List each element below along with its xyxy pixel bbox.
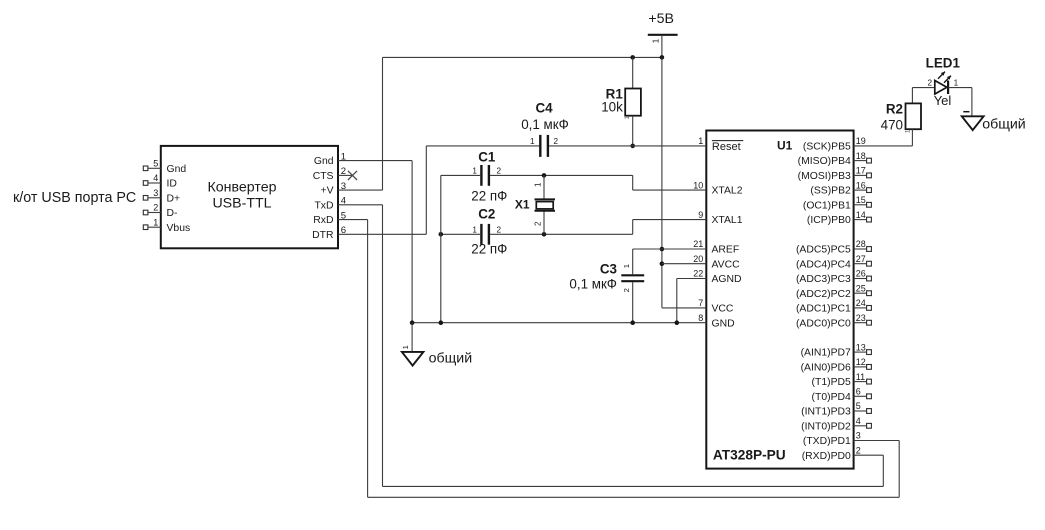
svg-text:1: 1 <box>530 137 535 146</box>
svg-text:15: 15 <box>856 195 866 205</box>
svg-text:R2: R2 <box>886 101 903 116</box>
svg-text:(ADC3)PC3: (ADC3)PC3 <box>796 274 851 285</box>
svg-text:(INT1)PD3: (INT1)PD3 <box>801 407 851 418</box>
svg-text:TxD: TxD <box>314 200 333 211</box>
svg-text:VCC: VCC <box>712 304 734 315</box>
svg-text:XTAL2: XTAL2 <box>712 186 743 197</box>
svg-text:1: 1 <box>698 136 703 146</box>
svg-text:3: 3 <box>856 431 861 441</box>
svg-text:D+: D+ <box>167 193 181 204</box>
svg-text:23: 23 <box>856 313 866 323</box>
svg-text:25: 25 <box>856 283 866 293</box>
svg-text:LED1: LED1 <box>926 55 961 70</box>
svg-text:24: 24 <box>856 298 866 308</box>
svg-text:1: 1 <box>401 345 410 349</box>
svg-text:2: 2 <box>497 167 502 176</box>
svg-text:2: 2 <box>497 225 502 234</box>
svg-text:XTAL1: XTAL1 <box>712 215 743 226</box>
svg-text:9: 9 <box>698 210 703 220</box>
svg-text:Vbus: Vbus <box>167 223 191 234</box>
svg-text:C1: C1 <box>478 149 496 164</box>
svg-text:C3: C3 <box>600 261 617 276</box>
svg-text:(T1)PD5: (T1)PD5 <box>812 377 851 388</box>
svg-text:1: 1 <box>472 167 477 176</box>
svg-text:1: 1 <box>622 264 631 268</box>
svg-text:17: 17 <box>856 166 866 176</box>
svg-text:(ICP)PB0: (ICP)PB0 <box>807 215 851 226</box>
svg-text:3: 3 <box>153 188 158 198</box>
svg-text:общий: общий <box>982 116 1026 132</box>
svg-text:C4: C4 <box>535 101 553 116</box>
svg-text:16: 16 <box>856 180 866 190</box>
svg-text:(ADC2)PC2: (ADC2)PC2 <box>796 289 851 300</box>
svg-text:2: 2 <box>153 203 158 213</box>
svg-text:(SCK)PB5: (SCK)PB5 <box>803 142 851 153</box>
svg-text:Конвертер: Конвертер <box>208 180 277 196</box>
svg-text:4: 4 <box>856 416 861 426</box>
svg-text:DTR: DTR <box>312 230 334 241</box>
svg-text:2: 2 <box>622 288 631 292</box>
svg-text:22 пФ: 22 пФ <box>471 189 507 204</box>
svg-text:GND: GND <box>712 318 735 329</box>
svg-text:к/от USB порта PC: к/от USB порта PC <box>13 190 136 206</box>
svg-text:(SS)PB2: (SS)PB2 <box>810 186 851 197</box>
svg-text:Yel: Yel <box>934 93 952 108</box>
svg-text:(ADC5)PC5: (ADC5)PC5 <box>796 245 851 256</box>
svg-text:0,1 мкФ: 0,1 мкФ <box>569 277 617 292</box>
svg-text:общий: общий <box>429 350 473 366</box>
svg-text:(MISO)PB4: (MISO)PB4 <box>798 156 851 167</box>
svg-text:(TXD)PD1: (TXD)PD1 <box>803 436 851 447</box>
svg-text:+5В: +5В <box>648 11 674 27</box>
svg-text:22 пФ: 22 пФ <box>471 242 507 257</box>
svg-text:D-: D- <box>167 208 178 219</box>
svg-text:1: 1 <box>651 38 660 43</box>
svg-text:12: 12 <box>856 357 866 367</box>
svg-text:22: 22 <box>693 269 703 279</box>
svg-text:19: 19 <box>856 136 866 146</box>
svg-text:CTS: CTS <box>313 171 334 182</box>
svg-text:AT328P-PU: AT328P-PU <box>713 448 786 463</box>
svg-text:AREF: AREF <box>712 245 740 256</box>
svg-text:(ADC4)PC4: (ADC4)PC4 <box>796 259 851 270</box>
svg-text:X1: X1 <box>515 197 530 211</box>
svg-text:0,1 мкФ: 0,1 мкФ <box>521 117 569 132</box>
svg-text:(T0)PD4: (T0)PD4 <box>812 392 851 403</box>
svg-text:6: 6 <box>856 387 861 397</box>
svg-text:10: 10 <box>693 180 703 190</box>
svg-text:AGND: AGND <box>712 274 742 285</box>
svg-text:Gnd: Gnd <box>167 164 187 175</box>
svg-text:20: 20 <box>693 254 703 264</box>
svg-text:(INT0)PD2: (INT0)PD2 <box>801 421 851 432</box>
svg-text:2: 2 <box>856 445 861 455</box>
svg-text:U1: U1 <box>777 138 793 152</box>
svg-text:C2: C2 <box>478 206 495 221</box>
svg-text:11: 11 <box>856 372 865 382</box>
svg-text:13: 13 <box>856 342 866 352</box>
svg-text:27: 27 <box>856 254 866 264</box>
svg-text:(RXD)PD0: (RXD)PD0 <box>802 451 851 462</box>
svg-text:2: 2 <box>554 137 559 146</box>
svg-text:14: 14 <box>856 210 866 220</box>
svg-text:5: 5 <box>153 159 158 169</box>
svg-text:(MOSI)PB3: (MOSI)PB3 <box>798 171 851 182</box>
svg-text:(AIN0)PD6: (AIN0)PD6 <box>801 363 851 374</box>
svg-text:2: 2 <box>927 79 932 88</box>
svg-text:1: 1 <box>153 217 158 227</box>
svg-text:Gnd: Gnd <box>314 156 334 167</box>
svg-text:(OC1)PB1: (OC1)PB1 <box>803 200 851 211</box>
svg-text:8: 8 <box>698 313 703 323</box>
svg-text:(AIN1)PD7: (AIN1)PD7 <box>801 348 851 359</box>
svg-text:18: 18 <box>856 151 866 161</box>
svg-text:+V: +V <box>321 186 334 197</box>
svg-text:28: 28 <box>856 239 866 249</box>
svg-text:1: 1 <box>624 116 631 120</box>
svg-text:USB-TTL: USB-TTL <box>212 196 271 212</box>
svg-text:1: 1 <box>904 129 911 133</box>
svg-text:1: 1 <box>533 182 542 187</box>
svg-text:Reset: Reset <box>712 141 741 153</box>
svg-text:ID: ID <box>167 179 177 190</box>
svg-text:10k: 10k <box>601 99 623 114</box>
svg-text:5: 5 <box>856 401 861 411</box>
svg-text:4: 4 <box>153 173 158 183</box>
svg-text:AVCC: AVCC <box>712 259 741 270</box>
svg-text:(ADC1)PC1: (ADC1)PC1 <box>796 304 851 315</box>
svg-text:21: 21 <box>693 239 703 249</box>
svg-text:1: 1 <box>472 225 477 234</box>
svg-text:470: 470 <box>881 118 903 133</box>
svg-text:26: 26 <box>856 269 866 279</box>
svg-text:2: 2 <box>534 221 543 226</box>
svg-text:7: 7 <box>698 298 703 308</box>
svg-text:(ADC0)PC0: (ADC0)PC0 <box>796 318 851 329</box>
svg-text:1: 1 <box>954 79 959 88</box>
svg-text:RxD: RxD <box>313 215 333 226</box>
